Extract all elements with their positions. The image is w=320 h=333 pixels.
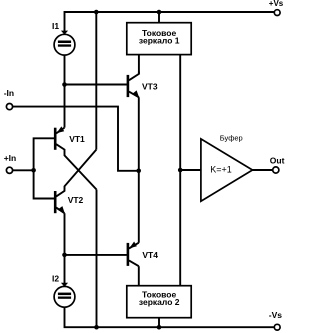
junction VT1 collector / -Vs rail — [94, 325, 99, 330]
svg-text:VT2: VT2 — [68, 195, 84, 205]
buffer amplifier (K=+1) — [201, 139, 253, 201]
svg-text:-In: -In — [4, 88, 14, 98]
wire node B to VT4 base — [65, 254, 127, 256]
svg-text:зеркало 1: зеркало 1 — [139, 35, 180, 45]
wire buffer input — [180, 169, 201, 171]
junction -In / VT3-VT4 emitters — [136, 169, 141, 174]
terminal Out — [273, 167, 279, 173]
svg-text:Out: Out — [270, 156, 285, 166]
wire VT1 collector to -Vs rail — [96, 190, 98, 328]
wire VT4 collector to mirror 2 — [138, 266, 140, 286]
wire node A to VT3 base — [65, 84, 127, 86]
terminal -Vs — [274, 324, 280, 330]
wire mirror 1 to +Vs rail — [158, 12, 160, 23]
svg-text:VT4: VT4 — [142, 250, 158, 260]
wire VT3 collector to mirror 1 — [138, 55, 140, 74]
wire VT3 emitter to VT4 emitter — [138, 97, 140, 242]
svg-text:-Vs: -Vs — [269, 310, 283, 320]
wire +In down to VT2 base — [34, 170, 55, 198]
transistor VT1 (PNP) — [55, 126, 96, 189]
wire VT2 emitter to node B — [64, 213, 66, 286]
junction +In split — [31, 168, 36, 173]
wire +In to bases of VT1 VT2 — [13, 169, 34, 171]
wire high-Z node (mirror1 to mirror2) — [179, 55, 181, 286]
wire +In up to VT1 base — [34, 138, 55, 170]
wire -Vs bottom rail — [65, 307, 275, 327]
terminal +Vs — [274, 10, 280, 16]
svg-text:Буфер: Буфер — [220, 134, 243, 143]
terminal +In — [6, 167, 12, 173]
junction mirror 2 / -Vs rail — [157, 325, 162, 330]
svg-text:зеркало 2: зеркало 2 — [139, 297, 180, 307]
wire -In to emitters node — [13, 107, 137, 171]
svg-text:VT1: VT1 — [69, 134, 85, 144]
svg-text:I1: I1 — [52, 21, 59, 31]
svg-text:VT3: VT3 — [142, 81, 158, 91]
transistor VT2 (NPN) — [55, 150, 96, 214]
junction mirror 1 / +Vs rail — [157, 10, 162, 15]
current mirror 1 box — [127, 23, 191, 55]
transistor VT4 (PNP) — [128, 242, 139, 267]
junction VT2 collector / +Vs rail — [94, 10, 99, 15]
svg-text:+In: +In — [4, 153, 17, 163]
svg-text:I2: I2 — [52, 274, 59, 284]
wire +Vs top rail — [65, 12, 275, 34]
svg-text:K=+1: K=+1 — [210, 164, 232, 174]
terminal -In — [6, 104, 12, 110]
current source I1 — [54, 31, 75, 56]
current mirror 2 box — [127, 286, 191, 318]
wire VT2 collector to +Vs rail — [95, 12, 97, 150]
node A junction (I1 / VT3 base / VT1 emitter) — [62, 82, 67, 87]
wire I1 bottom to node A — [64, 55, 66, 128]
node B junction (I2 / VT4 base / VT2 emitter) — [62, 253, 67, 258]
current source I2 — [54, 283, 75, 307]
transistor VT3 (NPN) — [128, 71, 139, 97]
wire buffer output — [253, 169, 273, 171]
wire mirror 2 to -Vs rail — [158, 318, 160, 328]
junction high-Z node / buffer input — [178, 168, 183, 173]
svg-text:+Vs: +Vs — [269, 0, 284, 8]
